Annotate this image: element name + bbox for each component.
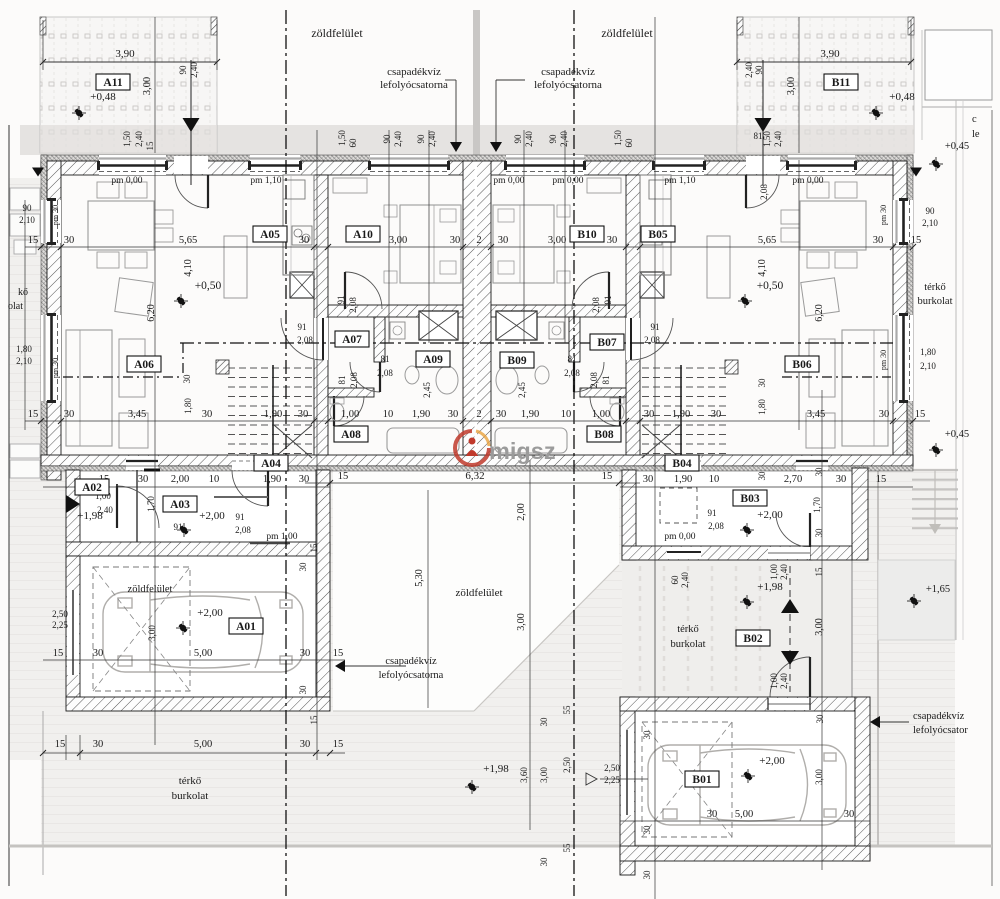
svg-text:15: 15 [915,409,926,420]
watermark logo [455,431,489,465]
axis dash-dot vertical A [285,10,287,896]
kitchen sink B [642,226,662,245]
armchair B [801,278,839,316]
wall A07/A09 stub [374,317,385,362]
svg-text:30: 30 [844,809,855,820]
entry door B top opening [746,156,780,174]
door A07 to A09 [350,362,380,392]
door B07 to B09 [574,362,604,392]
svg-text:2: 2 [476,409,481,420]
neighbour steps left lower [10,444,40,458]
tv table B [806,413,835,448]
svg-text:2,08: 2,08 [591,297,601,313]
vertical dim lines bedrooms [388,130,390,343]
svg-text:90: 90 [548,134,558,144]
vertical dim line x317 [316,130,318,760]
window bedroom B10 top [506,155,584,175]
window bedroom A10 top [370,155,448,175]
terrace B02 grey [622,560,852,697]
svg-text:30: 30 [642,870,652,880]
svg-text:pm 0,00: pm 0,00 [111,176,142,186]
svg-text:2,25: 2,25 [604,775,620,785]
wall B10/B07 horizontal [491,305,626,317]
label B06 [785,356,819,372]
door A07 to A08 [334,396,364,426]
sideboard B [707,236,730,298]
svg-text:30: 30 [539,717,549,727]
svg-text:30: 30 [450,235,461,246]
wardrobe B10 [587,178,621,193]
svg-text:2,08: 2,08 [377,368,393,378]
svg-text:4,10: 4,10 [183,259,194,277]
svg-text:30: 30 [299,235,310,246]
svg-text:A10: A10 [353,229,373,241]
svg-text:A06: A06 [134,359,154,371]
svg-text:3,60: 3,60 [519,767,529,783]
axis dash-dot vertical B [573,10,575,896]
svg-text:1,90: 1,90 [521,409,539,420]
svg-text:B05: B05 [648,229,667,241]
svg-text:2,45: 2,45 [422,382,432,398]
svg-text:lefolyócsatorna: lefolyócsatorna [380,79,448,91]
svg-text:91: 91 [336,296,346,305]
svg-text:c: c [972,114,977,125]
svg-text:15: 15 [28,409,39,420]
svg-text:2,70: 2,70 [784,474,802,485]
svg-text:1,50: 1,50 [337,130,347,146]
svg-text:térkő: térkő [924,282,946,293]
svg-text:30: 30 [64,409,75,420]
svg-text:2,40: 2,40 [779,564,789,580]
svg-text:+0,50: +0,50 [195,280,222,292]
svg-text:30: 30 [757,471,767,481]
svg-text:+1,98: +1,98 [77,510,103,522]
stairs B [642,367,726,369]
svg-text:+1,98: +1,98 [483,763,509,775]
svg-text:30: 30 [814,528,824,538]
svg-text:1,00: 1,00 [769,673,779,689]
dim row y486 A [43,486,330,488]
door A04 opening bottom wall [232,456,268,470]
dim vertical 3,00 B11 [798,17,800,153]
svg-text:+0,50: +0,50 [757,280,784,292]
washbasin B09 [496,366,518,394]
svg-text:2,10: 2,10 [16,356,32,366]
svg-text:A03: A03 [170,499,190,511]
svg-text:+0,45: +0,45 [945,141,969,152]
wall B07/B08 [580,388,626,397]
label B05 [641,226,675,242]
bed A10 [400,205,461,283]
svg-text:3,00: 3,00 [814,618,825,636]
white zoldfelulet polygon bottom center [333,471,619,711]
svg-text:91: 91 [651,322,660,332]
svg-text:81: 81 [568,354,577,364]
door B03-B02 opening [768,547,810,559]
svg-text:30: 30 [182,374,192,384]
svg-text:zöldfelület: zöldfelület [601,26,653,40]
label A05 [253,226,287,242]
svg-text:1,00: 1,00 [769,564,779,580]
kitchen counter A [283,175,314,275]
vertical dim line x428 (5,30) [427,490,429,708]
svg-text:55: 55 [562,705,572,715]
site boundary line bottom left [42,711,44,875]
threshold bars [144,469,160,472]
label A02 [75,479,109,495]
svg-text:3,90: 3,90 [115,48,135,60]
svg-text:2,40: 2,40 [393,131,403,147]
svg-text:15: 15 [333,739,344,750]
svg-text:3,45: 3,45 [128,409,146,420]
svg-text:3,00: 3,00 [548,235,566,246]
door B10 to B07 [572,272,609,309]
svg-text:A07: A07 [342,334,362,346]
svg-text:1,00: 1,00 [341,409,359,420]
svg-text:A04: A04 [261,458,281,470]
window kitchen A top [250,155,300,175]
svg-text:A02: A02 [82,482,102,494]
svg-text:30: 30 [607,235,618,246]
svg-text:3,90: 3,90 [820,48,840,60]
svg-text:B07: B07 [597,337,616,349]
svg-text:15: 15 [309,543,319,553]
garage B door gap left [621,730,634,815]
svg-text:30: 30 [496,409,507,420]
site boundary lines right [955,100,957,640]
label B03 [733,490,767,506]
zoldfelulet dashed rect garage A [93,567,190,691]
window living B top [788,155,855,175]
dim vertical 3,00 A11 [154,17,156,153]
svg-text:pm 0,00: pm 0,00 [493,176,524,186]
svg-text:30: 30 [873,235,884,246]
svg-text:1,80: 1,80 [920,347,936,357]
svg-text:3,00: 3,00 [814,769,824,785]
label A03 [163,496,197,512]
entry B door wall stub [810,546,852,560]
kitchen sink A [292,226,312,245]
entry B bottom wall [622,546,812,560]
vertical dim line x799 lower [798,160,800,430]
label B07 [590,334,624,350]
svg-text:90: 90 [416,134,426,144]
label B02 [736,630,770,646]
svg-text:4,10: 4,10 [757,259,768,277]
page frame right [991,110,993,886]
svg-text:B09: B09 [507,355,526,367]
label A07 [335,331,369,347]
svg-text:2,08: 2,08 [349,372,359,388]
garage B person door top [768,698,810,710]
svg-text:pm 30: pm 30 [879,350,888,370]
svg-text:3,00: 3,00 [786,77,797,95]
svg-text:30: 30 [202,409,213,420]
svg-text:B04: B04 [672,458,691,470]
svg-text:lefolyócsator: lefolyócsator [913,725,968,736]
entry B left wall [622,470,636,560]
svg-text:A01: A01 [236,621,256,633]
svg-text:2,08: 2,08 [644,335,660,345]
svg-text:15: 15 [876,474,887,485]
svg-text:5,65: 5,65 [179,235,197,246]
svg-text:2,40: 2,40 [559,131,569,147]
svg-text:91: 91 [603,296,613,305]
dim row y486 B [620,486,913,488]
svg-text:30: 30 [298,685,308,695]
svg-text:csapadékvíz: csapadékvíz [913,711,965,722]
svg-text:15: 15 [53,648,64,659]
svg-text:2: 2 [476,235,481,246]
label B08 [587,426,621,442]
svg-text:2,25: 2,25 [52,620,68,630]
door B03 arc [776,513,810,547]
svg-text:3,00: 3,00 [142,77,153,95]
svg-text:30: 30 [642,825,652,835]
svg-text:2,08: 2,08 [708,521,724,531]
kitchen fridge A [283,180,305,199]
svg-text:B11: B11 [832,77,851,89]
garage B right wall [855,697,870,861]
coffee table A [119,339,145,397]
svg-text:2,08: 2,08 [759,184,769,200]
svg-text:5,00: 5,00 [194,739,212,750]
garage A door gap left [67,590,79,675]
north arrow B [762,60,764,185]
kitchen shaft B with X [640,272,664,298]
chairs dining B [807,182,829,198]
washbasin A09 [436,366,458,394]
stair post B [725,360,738,374]
door B06 to B07 opening [626,318,640,360]
svg-text:pm 0,00: pm 0,00 [552,176,583,186]
shaft B with X [496,311,537,340]
svg-text:olat: olat [8,301,23,312]
svg-text:2,50: 2,50 [562,757,572,773]
svg-text:1,90: 1,90 [674,474,692,485]
svg-text:pm 30: pm 30 [51,358,60,378]
svg-text:15: 15 [602,471,613,482]
grey roof overhang band top [20,125,913,155]
label B10 [570,226,604,242]
svg-text:30: 30 [643,474,654,485]
svg-text:30: 30 [642,730,652,740]
svg-text:2,08: 2,08 [297,335,313,345]
label A04 [254,455,288,471]
kitchen shaft A with X [290,272,314,298]
svg-text:90: 90 [178,65,188,75]
kitchen fridge B [649,180,671,199]
svg-text:1,80: 1,80 [16,344,32,354]
sofa A [66,330,112,446]
band overlay on terraces [40,125,217,155]
label B04 [665,455,699,471]
window left wall upper 90/210 [41,200,61,243]
svg-text:kő: kő [18,287,28,298]
svg-text:2,40: 2,40 [524,131,534,147]
svg-text:A09: A09 [423,354,443,366]
washing machine B [549,322,564,339]
door B02 arc down [770,657,810,697]
tv table A [119,413,148,448]
svg-text:90: 90 [23,203,33,213]
sofa B [842,330,888,446]
svg-text:2,40: 2,40 [134,131,144,147]
svg-text:91: 91 [298,322,307,332]
white interior entry A [80,470,316,542]
svg-text:2,00: 2,00 [516,503,527,521]
garage B bottom wall [620,846,870,861]
svg-text:térkő: térkő [677,624,699,635]
garage A bottom wall [66,697,330,711]
svg-text:30: 30 [644,409,655,420]
svg-text:55: 55 [562,843,572,853]
svg-text:burkolat: burkolat [172,790,209,802]
wall A10/A07 horizontal [328,305,463,317]
svg-text:1,90: 1,90 [264,409,282,420]
toilet B09 [535,366,549,384]
svg-text:+2,00: +2,00 [199,510,225,522]
garage A right wall [316,470,330,697]
svg-text:3,00: 3,00 [147,625,157,641]
svg-text:30: 30 [879,409,890,420]
svg-text:+0,45: +0,45 [945,429,969,440]
svg-text:+0,48: +0,48 [889,91,915,103]
svg-text:migsz: migsz [489,438,556,464]
svg-text:1,80: 1,80 [757,399,767,415]
svg-text:csapadékvíz: csapadékvíz [385,656,437,667]
terrace A11 hatched grid [40,17,217,153]
terrace corner posts [40,17,46,35]
white interior B03 [636,468,852,546]
svg-text:30: 30 [300,739,311,750]
svg-text:81: 81 [601,376,611,385]
terrace B11 hatched grid [737,17,914,153]
svg-text:30: 30 [64,235,75,246]
page frame left [8,125,10,886]
washing machine A [390,322,405,339]
svg-text:5,00: 5,00 [194,648,212,659]
svg-text:burkolat: burkolat [671,639,706,650]
window left wall lower 180/210 [41,315,61,401]
site boundary grey thick bottom [9,845,992,848]
axis dash-dot step left [182,343,184,377]
svg-text:3,45: 3,45 [807,409,825,420]
svg-text:burkolat: burkolat [918,296,953,307]
dim line 3,90 A [43,61,217,63]
svg-text:90: 90 [513,134,523,144]
entry A02/A03 partition [136,470,138,542]
vertical dim line x822 [821,390,823,870]
axis dash-dot horizontal main [180,342,893,344]
wall A07/A08 [328,388,374,397]
stair post A [216,360,229,374]
svg-text:2,08: 2,08 [589,372,599,388]
svg-text:pm 30: pm 30 [879,205,888,225]
door B04 opening bottom wall [665,456,701,470]
svg-text:2,40: 2,40 [773,131,783,147]
dim 6,32 center [305,482,640,484]
wall B07/B09 stub [569,317,580,362]
svg-text:lefolyócsatorna: lefolyócsatorna [379,670,444,681]
svg-text:30: 30 [448,409,459,420]
stairs A [228,367,312,369]
svg-text:30: 30 [93,648,104,659]
svg-text:5,30: 5,30 [414,569,425,587]
svg-text:B01: B01 [692,774,711,786]
bathtub B09 [495,428,567,453]
svg-text:10: 10 [561,409,572,420]
svg-text:30: 30 [711,409,722,420]
svg-text:+2,00: +2,00 [197,607,223,619]
svg-text:1,90: 1,90 [672,409,690,420]
svg-text:15: 15 [309,715,319,725]
B02 right thin wall line [851,560,853,697]
svg-text:1,90: 1,90 [263,474,281,485]
svg-text:90: 90 [382,134,392,144]
svg-text:csapadékvíz: csapadékvíz [541,66,595,78]
svg-text:2,10: 2,10 [920,361,936,371]
svg-text:30: 30 [300,648,311,659]
svg-text:91: 91 [236,512,245,522]
dining table A [88,201,154,250]
svg-text:81: 81 [381,354,390,364]
svg-text:zöldfelület: zöldfelület [311,26,363,40]
svg-text:3,00: 3,00 [539,767,549,783]
svg-text:30: 30 [814,467,824,477]
vertical dim line x530 [529,460,531,830]
svg-text:pm 0,00: pm 0,00 [792,176,823,186]
svg-text:91: 91 [708,508,717,518]
svg-text:6,32: 6,32 [465,470,484,482]
garage B top wall [620,697,855,711]
svg-text:15: 15 [145,141,155,151]
svg-text:2,08: 2,08 [348,297,358,313]
door B07 to B08 [590,396,620,426]
label A08 [334,426,368,442]
svg-text:pm 30: pm 30 [51,205,60,225]
svg-text:30: 30 [757,378,767,388]
coffee table B [809,339,835,397]
svg-text:+2,00: +2,00 [757,509,783,521]
party wall axis extension grey top [473,10,480,155]
neighbour steps left margin [10,188,40,210]
garage B left wall [620,697,635,875]
entry A bottom wall / garage top wall [66,542,330,556]
window right wall lower 180/210 [893,315,913,401]
svg-text:5,00: 5,00 [735,809,753,820]
entry B right wall upper [852,468,868,560]
small triangle right wall top [910,168,922,177]
paved site area left strip [9,178,41,760]
svg-text:B06: B06 [792,359,811,371]
svg-text:+2,00: +2,00 [759,755,785,767]
vertical dim line x655 [654,17,656,899]
svg-text:60: 60 [348,138,358,148]
dashed wardrobe B03 [660,488,697,523]
label A06 [127,356,161,372]
svg-text:zöldfelület: zöldfelület [455,587,502,599]
svg-text:15: 15 [333,648,344,659]
main left wall [41,155,47,480]
terrace door A bottom wall [126,456,158,470]
dim row y421 [25,420,930,422]
toilet B08 [610,403,624,421]
svg-text:6,20: 6,20 [146,304,157,322]
toilet A08 [330,403,344,421]
wall B bedroom/living x626 [626,175,640,455]
svg-text:30: 30 [498,235,509,246]
